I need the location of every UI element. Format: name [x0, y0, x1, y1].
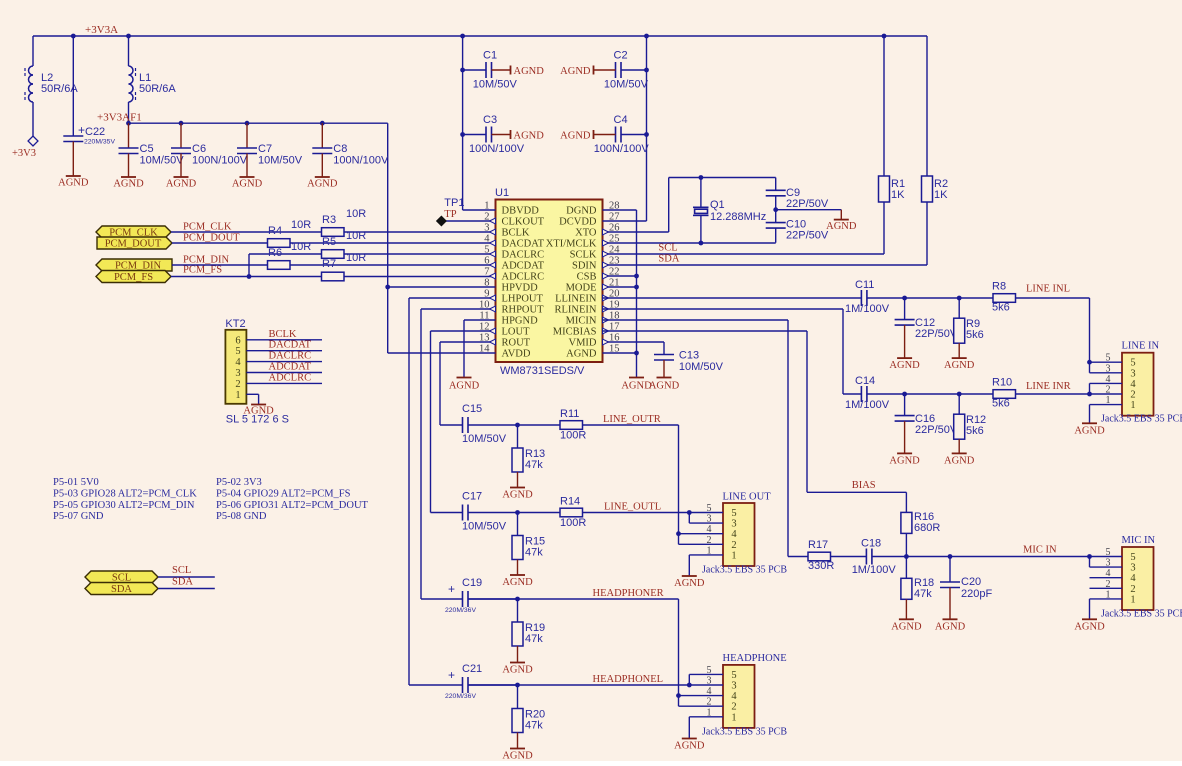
svg-text:100N/100V: 100N/100V	[469, 143, 525, 155]
svg-text:4: 4	[707, 524, 712, 535]
svg-text:Q1: Q1	[710, 199, 725, 211]
svg-text:LLINEIN: LLINEIN	[555, 294, 597, 305]
svg-text:3: 3	[731, 681, 736, 692]
svg-text:47k: 47k	[525, 720, 543, 732]
svg-text:AGND: AGND	[502, 751, 533, 762]
svg-text:SDA: SDA	[111, 584, 132, 595]
svg-text:1M/100V: 1M/100V	[852, 564, 897, 576]
svg-text:2: 2	[1106, 579, 1111, 590]
svg-text:4: 4	[731, 529, 737, 540]
svg-text:5: 5	[707, 503, 712, 514]
svg-text:2: 2	[235, 379, 240, 390]
svg-text:4: 4	[235, 357, 241, 368]
svg-text:220M/36V: 220M/36V	[445, 693, 476, 700]
svg-text:HPVDD: HPVDD	[502, 283, 539, 294]
svg-text:5: 5	[1130, 358, 1135, 369]
svg-text:10R: 10R	[291, 241, 311, 253]
svg-text:MIC IN: MIC IN	[1023, 545, 1057, 556]
svg-text:LINE INR: LINE INR	[1026, 381, 1071, 392]
svg-text:AGND: AGND	[58, 178, 89, 189]
svg-text:1M/100V: 1M/100V	[845, 303, 890, 315]
svg-text:HEADPHONER: HEADPHONER	[593, 588, 664, 599]
svg-text:LINE IN: LINE IN	[1122, 341, 1160, 352]
svg-text:4: 4	[707, 686, 712, 697]
svg-text:XTI/MCLK: XTI/MCLK	[546, 239, 597, 250]
svg-text:10M/50V: 10M/50V	[604, 79, 649, 91]
svg-text:1K: 1K	[934, 189, 948, 201]
svg-text:C15: C15	[462, 403, 482, 415]
svg-text:HEADPHONEL: HEADPHONEL	[593, 674, 664, 685]
svg-text:C2: C2	[614, 50, 628, 62]
svg-text:SCL: SCL	[658, 243, 677, 254]
svg-text:AGND: AGND	[891, 621, 922, 632]
svg-text:5k6: 5k6	[992, 398, 1010, 410]
svg-text:3: 3	[1130, 368, 1135, 379]
svg-text:47k: 47k	[914, 588, 932, 600]
svg-text:HPGND: HPGND	[502, 316, 539, 327]
svg-text:4: 4	[1106, 568, 1111, 579]
svg-text:AGND: AGND	[674, 578, 705, 589]
svg-text:Jack3.5 EBS 35 PCB: Jack3.5 EBS 35 PCB	[1101, 608, 1182, 619]
svg-text:1: 1	[731, 550, 736, 561]
svg-text:5: 5	[731, 508, 736, 519]
svg-text:R7: R7	[322, 258, 336, 270]
svg-text:680R: 680R	[914, 522, 940, 534]
svg-text:ADCLRC: ADCLRC	[269, 372, 312, 383]
svg-text:47k: 47k	[525, 633, 543, 645]
svg-text:C1: C1	[483, 50, 497, 62]
svg-text:5k6: 5k6	[966, 425, 984, 437]
svg-text:C7: C7	[258, 143, 272, 155]
svg-text:RHPOUT: RHPOUT	[502, 305, 545, 316]
svg-text:AGND: AGND	[560, 131, 591, 142]
svg-text:AGND: AGND	[560, 66, 591, 77]
svg-text:SCLK: SCLK	[570, 250, 597, 261]
svg-text:C18: C18	[861, 538, 881, 550]
svg-text:2: 2	[707, 535, 712, 546]
svg-text:22P/50V: 22P/50V	[786, 198, 829, 210]
svg-text:+3V3AF1: +3V3AF1	[97, 112, 142, 124]
svg-text:3: 3	[1130, 563, 1135, 574]
svg-text:100R: 100R	[560, 517, 586, 529]
svg-text:220M/36V: 220M/36V	[445, 607, 476, 614]
svg-text:2: 2	[707, 697, 712, 708]
svg-text:PCM_FS: PCM_FS	[114, 272, 153, 283]
svg-text:2: 2	[1106, 385, 1111, 396]
svg-text:AGND: AGND	[1074, 425, 1105, 436]
svg-text:AGND: AGND	[566, 349, 597, 360]
svg-text:U1: U1	[495, 187, 509, 199]
svg-text:AGND: AGND	[449, 381, 480, 392]
svg-text:CSB: CSB	[577, 272, 597, 283]
svg-text:P5-03 GPIO28 ALT2=PCM_CLK: P5-03 GPIO28 ALT2=PCM_CLK	[53, 488, 197, 499]
svg-text:LINE OUT: LINE OUT	[723, 491, 772, 502]
svg-text:LOUT: LOUT	[502, 327, 531, 338]
svg-text:22P/50V: 22P/50V	[915, 424, 958, 436]
svg-text:PCM_FS: PCM_FS	[183, 264, 222, 275]
svg-text:R6: R6	[268, 247, 282, 259]
svg-text:DBVDD: DBVDD	[502, 206, 540, 217]
svg-text:AGND: AGND	[674, 741, 705, 752]
svg-text:3: 3	[731, 519, 736, 530]
svg-text:DACLRC: DACLRC	[502, 250, 545, 261]
svg-text:XTO: XTO	[575, 228, 597, 239]
svg-text:RLINEIN: RLINEIN	[555, 305, 597, 316]
svg-text:R10: R10	[992, 377, 1012, 389]
svg-text:1: 1	[1130, 400, 1135, 411]
svg-text:P5-02 3V3: P5-02 3V3	[216, 477, 262, 488]
svg-text:10M/50V: 10M/50V	[679, 361, 724, 373]
svg-text:12.288MHz: 12.288MHz	[710, 211, 766, 223]
svg-text:2: 2	[1130, 584, 1135, 595]
svg-text:100N/100V: 100N/100V	[192, 155, 248, 167]
svg-text:P5-04 GPIO29 ALT2=PCM_FS: P5-04 GPIO29 ALT2=PCM_FS	[216, 488, 351, 499]
svg-text:C6: C6	[192, 143, 206, 155]
svg-text:PCM_DOUT: PCM_DOUT	[183, 233, 240, 244]
svg-text:220pF: 220pF	[961, 588, 992, 600]
svg-text:AGND: AGND	[649, 381, 680, 392]
svg-text:+: +	[78, 123, 85, 137]
svg-text:SDA: SDA	[172, 577, 193, 588]
svg-text:10M/50V: 10M/50V	[473, 79, 518, 91]
svg-text:P5-08 GND: P5-08 GND	[216, 511, 267, 522]
svg-text:C14: C14	[855, 375, 875, 387]
svg-text:10M/50V: 10M/50V	[462, 521, 507, 533]
svg-text:330R: 330R	[808, 560, 834, 572]
svg-text:ROUT: ROUT	[502, 338, 531, 349]
svg-text:100R: 100R	[560, 430, 586, 442]
svg-text:R8: R8	[992, 281, 1006, 293]
svg-text:AGND: AGND	[944, 360, 975, 371]
svg-text:BIAS: BIAS	[852, 480, 876, 491]
svg-text:WM8731SEDS/V: WM8731SEDS/V	[500, 365, 585, 377]
svg-text:MICBIAS: MICBIAS	[553, 327, 597, 338]
svg-text:10R: 10R	[346, 208, 366, 220]
svg-text:DACDAT: DACDAT	[502, 239, 545, 250]
svg-text:LINE_OUTL: LINE_OUTL	[604, 502, 661, 513]
svg-text:DACDAT: DACDAT	[269, 340, 312, 351]
svg-text:PCM_DOUT: PCM_DOUT	[105, 239, 162, 250]
svg-text:AGND: AGND	[514, 131, 545, 142]
svg-text:3: 3	[1106, 363, 1111, 374]
svg-text:3: 3	[235, 368, 240, 379]
svg-text:220M/35V: 220M/35V	[84, 139, 115, 146]
svg-text:47k: 47k	[525, 459, 543, 471]
svg-text:3: 3	[1106, 558, 1111, 569]
svg-text:100N/100V: 100N/100V	[333, 155, 389, 167]
svg-text:P5-05 GPIO30 ALT2=PCM_DIN: P5-05 GPIO30 ALT2=PCM_DIN	[53, 500, 195, 511]
svg-text:5k6: 5k6	[992, 302, 1010, 314]
svg-text:22P/50V: 22P/50V	[786, 230, 829, 242]
svg-text:C5: C5	[140, 143, 154, 155]
svg-text:AGND: AGND	[1074, 621, 1105, 632]
svg-text:AGND: AGND	[889, 455, 920, 466]
svg-text:R11: R11	[560, 408, 579, 420]
svg-text:R3: R3	[322, 214, 336, 226]
svg-text:1: 1	[707, 545, 712, 556]
svg-text:5: 5	[731, 670, 736, 681]
svg-text:1M/100V: 1M/100V	[845, 399, 890, 411]
svg-text:ADCLRC: ADCLRC	[502, 272, 545, 283]
svg-text:10M/50V: 10M/50V	[140, 155, 185, 167]
svg-text:1: 1	[707, 707, 712, 718]
svg-text:BCLK: BCLK	[269, 329, 297, 340]
svg-text:5k6: 5k6	[966, 329, 984, 341]
svg-text:P5-07 GND: P5-07 GND	[53, 511, 104, 522]
svg-text:5: 5	[1130, 552, 1135, 563]
svg-text:R17: R17	[808, 539, 828, 551]
svg-text:C4: C4	[614, 114, 628, 126]
svg-text:C11: C11	[855, 279, 874, 291]
svg-text:R5: R5	[322, 236, 336, 248]
svg-text:C8: C8	[333, 143, 347, 155]
svg-text:AGND: AGND	[502, 577, 533, 588]
svg-text:TP: TP	[444, 209, 456, 220]
svg-text:10M/50V: 10M/50V	[462, 433, 507, 445]
svg-text:1: 1	[1130, 594, 1135, 605]
svg-text:MIC IN: MIC IN	[1122, 535, 1156, 546]
svg-text:Jack3.5 EBS 35 PCB: Jack3.5 EBS 35 PCB	[1101, 414, 1182, 425]
svg-text:AGND: AGND	[502, 665, 533, 676]
svg-text:22P/50V: 22P/50V	[915, 328, 958, 340]
svg-text:AGND: AGND	[502, 490, 533, 501]
svg-text:1: 1	[1106, 395, 1111, 406]
svg-text:ADCDAT: ADCDAT	[269, 362, 312, 373]
svg-text:SDIN: SDIN	[572, 261, 597, 272]
svg-text:MODE: MODE	[566, 283, 597, 294]
svg-text:3: 3	[707, 676, 712, 687]
svg-text:AGND: AGND	[307, 179, 338, 190]
svg-text:LINE_OUTR: LINE_OUTR	[603, 414, 661, 425]
svg-text:50R/6A: 50R/6A	[139, 83, 176, 95]
svg-text:AGND: AGND	[166, 179, 197, 190]
svg-text:MICIN: MICIN	[566, 316, 597, 327]
svg-text:4: 4	[731, 691, 737, 702]
svg-text:R4: R4	[268, 225, 282, 237]
svg-text:+: +	[448, 668, 455, 682]
svg-text:CLKOUT: CLKOUT	[502, 217, 545, 228]
svg-text:DGND: DGND	[566, 206, 597, 217]
svg-text:AGND: AGND	[826, 221, 857, 232]
svg-text:AGND: AGND	[514, 66, 545, 77]
svg-text:+3V3: +3V3	[12, 148, 36, 159]
svg-text:AGND: AGND	[113, 179, 144, 190]
svg-text:1: 1	[1106, 589, 1111, 600]
svg-text:VMID: VMID	[569, 338, 597, 349]
svg-text:10R: 10R	[346, 252, 366, 264]
svg-text:10R: 10R	[291, 219, 311, 231]
svg-text:+3V3A: +3V3A	[85, 24, 118, 36]
svg-text:KT2: KT2	[225, 318, 245, 330]
svg-text:4: 4	[1130, 379, 1136, 390]
svg-text:1: 1	[235, 390, 240, 401]
svg-text:AGND: AGND	[935, 621, 966, 632]
svg-text:5: 5	[1106, 353, 1111, 364]
svg-text:4: 4	[1106, 374, 1111, 385]
svg-text:BCLK: BCLK	[502, 228, 530, 239]
svg-text:LHPOUT: LHPOUT	[502, 294, 544, 305]
svg-text:AGND: AGND	[944, 455, 975, 466]
svg-text:C19: C19	[462, 577, 482, 589]
svg-text:5: 5	[235, 346, 240, 357]
svg-text:P5-01 5V0: P5-01 5V0	[53, 477, 99, 488]
svg-text:P5-06 GPIO31 ALT2=PCM_DOUT: P5-06 GPIO31 ALT2=PCM_DOUT	[216, 500, 369, 511]
svg-text:Jack3.5 EBS 35 PCB: Jack3.5 EBS 35 PCB	[702, 564, 787, 575]
svg-text:C3: C3	[483, 114, 497, 126]
svg-text:AGND: AGND	[889, 360, 920, 371]
svg-text:C17: C17	[462, 491, 482, 503]
svg-text:ADCDAT: ADCDAT	[502, 261, 545, 272]
svg-text:5: 5	[707, 665, 712, 676]
svg-text:2: 2	[731, 540, 736, 551]
svg-text:HEADPHONE: HEADPHONE	[723, 653, 787, 664]
svg-text:PCM_CLK: PCM_CLK	[183, 222, 232, 233]
svg-text:2: 2	[731, 702, 736, 713]
svg-text:4: 4	[1130, 573, 1136, 584]
svg-text:10M/50V: 10M/50V	[258, 155, 303, 167]
svg-text:LINE INL: LINE INL	[1026, 284, 1070, 295]
svg-text:100N/100V: 100N/100V	[594, 143, 650, 155]
svg-text:C20: C20	[961, 576, 981, 588]
svg-text:C21: C21	[462, 663, 482, 675]
svg-text:C13: C13	[679, 350, 699, 362]
svg-text:TP1: TP1	[444, 197, 464, 209]
svg-text:AGND: AGND	[621, 381, 652, 392]
svg-text:AGND: AGND	[232, 179, 263, 190]
svg-text:DACLRC: DACLRC	[269, 351, 312, 362]
svg-text:6: 6	[235, 335, 240, 346]
svg-text:R14: R14	[560, 496, 580, 508]
svg-text:SDA: SDA	[658, 254, 679, 265]
svg-text:Jack3.5 EBS 35 PCB: Jack3.5 EBS 35 PCB	[702, 726, 787, 737]
svg-text:47k: 47k	[525, 547, 543, 559]
svg-text:10R: 10R	[346, 230, 366, 242]
svg-text:+: +	[448, 582, 455, 596]
svg-text:AVDD: AVDD	[502, 349, 531, 360]
svg-text:3: 3	[707, 514, 712, 525]
svg-text:2: 2	[1130, 390, 1135, 401]
svg-text:SCL: SCL	[172, 565, 191, 576]
svg-text:1K: 1K	[891, 189, 905, 201]
svg-text:C22: C22	[85, 126, 105, 138]
svg-text:5: 5	[1106, 547, 1111, 558]
svg-text:DCVDD: DCVDD	[559, 217, 597, 228]
svg-text:1: 1	[731, 712, 736, 723]
svg-text:AGND: AGND	[243, 406, 274, 417]
